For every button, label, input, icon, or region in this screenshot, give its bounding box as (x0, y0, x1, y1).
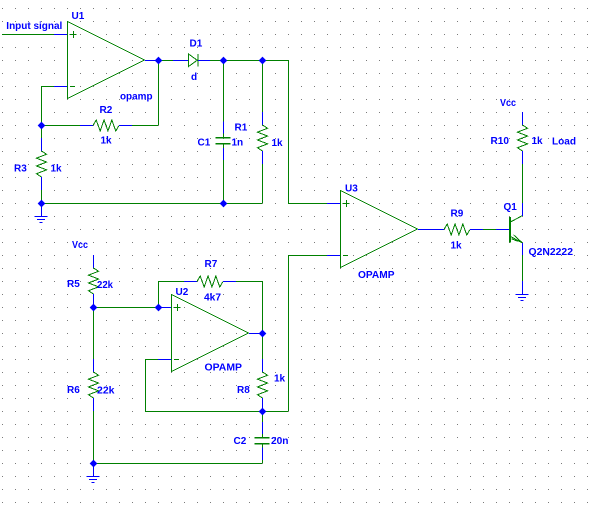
svg-text:1k: 1k (451, 241, 463, 252)
svg-text:R1: R1 (235, 123, 248, 134)
svg-text:R9: R9 (451, 209, 464, 220)
svg-text:opamp: opamp (120, 92, 153, 103)
svg-text:d: d (191, 72, 197, 83)
svg-text:Q1: Q1 (504, 202, 518, 213)
svg-text:R3: R3 (14, 164, 27, 175)
svg-text:Load: Load (552, 137, 576, 148)
svg-text:R2: R2 (100, 105, 113, 116)
svg-text:OPAMP: OPAMP (358, 270, 395, 281)
svg-text:Input signal: Input signal (6, 21, 62, 32)
svg-text:1n: 1n (232, 138, 244, 149)
svg-text:U1: U1 (72, 11, 85, 22)
svg-text:20n: 20n (271, 436, 289, 447)
svg-text:1k: 1k (532, 136, 544, 147)
svg-text:R5: R5 (67, 279, 80, 290)
svg-text:1k: 1k (101, 136, 113, 147)
svg-text:R6: R6 (67, 385, 80, 396)
svg-text:OPAMP: OPAMP (205, 363, 243, 374)
svg-text:U3: U3 (345, 184, 358, 195)
svg-text:22k: 22k (97, 386, 115, 397)
svg-text:U2: U2 (176, 287, 189, 298)
svg-text:C1: C1 (198, 138, 211, 149)
svg-text:1k: 1k (51, 164, 63, 175)
svg-text:R8: R8 (237, 385, 250, 396)
svg-text:C2: C2 (234, 436, 247, 447)
svg-text:1k: 1k (274, 374, 286, 385)
svg-text:D1: D1 (190, 39, 203, 50)
svg-text:4k7: 4k7 (204, 293, 221, 304)
svg-text:Vcc: Vcc (500, 98, 516, 109)
svg-text:1k: 1k (272, 138, 284, 149)
svg-text:R7: R7 (205, 259, 218, 270)
svg-text:Vcc: Vcc (72, 240, 88, 251)
svg-text:22k: 22k (97, 280, 113, 291)
svg-text:R10: R10 (491, 136, 510, 147)
svg-text:Q2N2222: Q2N2222 (529, 247, 574, 258)
